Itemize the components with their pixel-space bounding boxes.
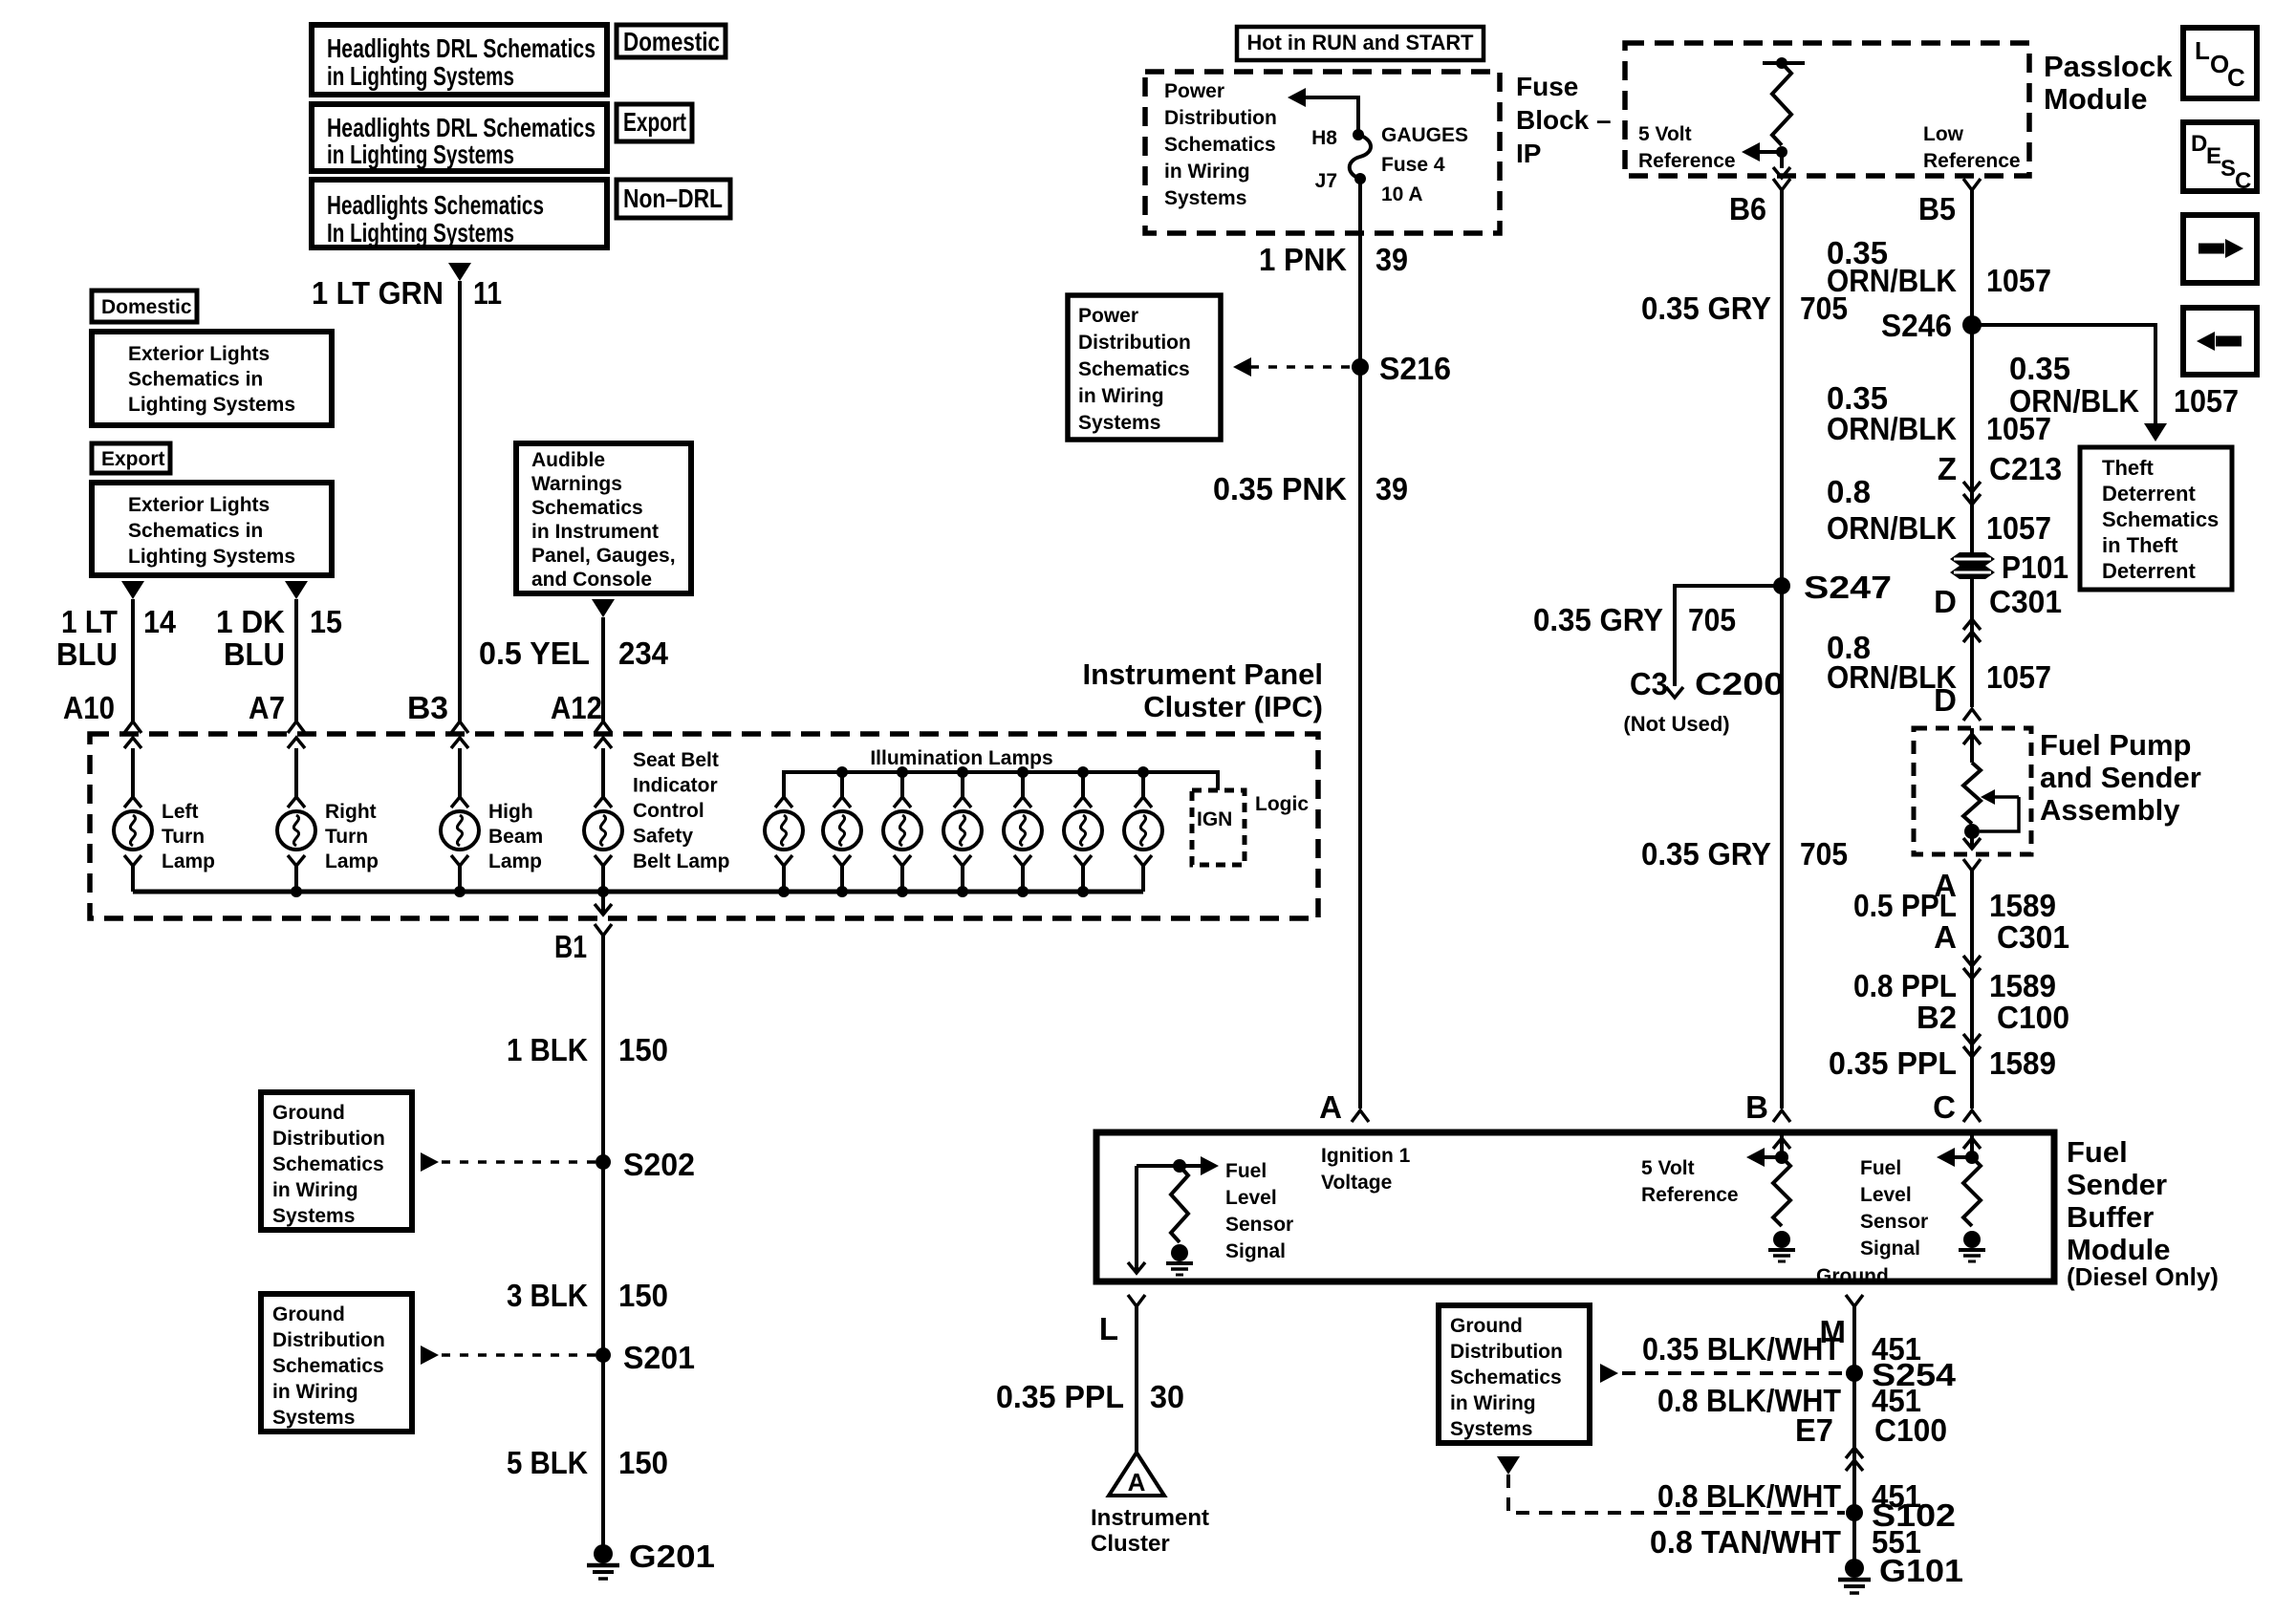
svg-text:5 Volt: 5 Volt — [1641, 1157, 1695, 1179]
branch wire to theft deterrent — [1972, 325, 2155, 424]
svg-text:Level: Level — [1860, 1184, 1912, 1206]
svg-text:D: D — [1934, 584, 1957, 619]
module internal: 5 volt reference pin B — [1780, 1132, 1784, 1157]
wire 0.5 PPL circuit 1589 — [1970, 871, 1974, 1109]
svg-text:IGN: IGN — [1197, 808, 1232, 830]
illumination lamp 3 — [900, 772, 904, 797]
arrow to exterior lights right — [285, 581, 308, 599]
svg-text:150: 150 — [618, 1278, 668, 1313]
passlock pin B5 — [1963, 179, 1981, 190]
svg-text:5 BLK: 5 BLK — [507, 1445, 588, 1480]
svg-text:Export: Export — [101, 448, 165, 470]
svg-text:Headlights DRL Schematics: Headlights DRL Schematics — [327, 33, 596, 63]
svg-text:C: C — [2227, 63, 2245, 92]
arrow from audible warnings box — [592, 599, 615, 617]
svg-text:Cluster: Cluster — [1091, 1531, 1170, 1557]
svg-text:D: D — [2191, 131, 2207, 157]
module pin L — [1128, 1295, 1145, 1306]
svg-text:Theft: Theft — [2102, 456, 2154, 480]
wire 1 PNK circuit 39 — [1358, 179, 1362, 367]
module pin M — [1846, 1295, 1863, 1306]
dashed link from ground distribution box to S102 — [1497, 1456, 1520, 1475]
svg-text:in Lighting Systems: in Lighting Systems — [327, 140, 514, 169]
svg-text:D: D — [1934, 682, 1957, 718]
svg-text:5 Volt: 5 Volt — [1638, 123, 1692, 145]
svg-text:S216: S216 — [1379, 351, 1451, 386]
fuel level sender potentiometer — [1970, 728, 1974, 763]
svg-text:A12: A12 — [551, 690, 602, 725]
svg-text:(Diesel Only): (Diesel Only) — [2067, 1262, 2219, 1291]
svg-text:Fuel: Fuel — [1860, 1157, 1901, 1179]
tag box Domestic (top) — [617, 25, 726, 57]
svg-text:Systems: Systems — [272, 1407, 355, 1429]
reference box: Exterior Lights Schematics (Domestic) — [92, 332, 332, 425]
svg-text:1057: 1057 — [1986, 411, 2051, 446]
svg-text:in Wiring: in Wiring — [1078, 385, 1164, 407]
svg-text:Systems: Systems — [1450, 1418, 1532, 1440]
svg-text:B2: B2 — [1917, 1000, 1957, 1035]
reference box: Headlights DRL Schematics in Lighting Systems (Export) — [312, 104, 607, 171]
svg-text:Schematics: Schematics — [2102, 507, 2219, 531]
IGN logic dashed box — [1192, 790, 1245, 865]
svg-text:B1: B1 — [554, 929, 587, 964]
svg-text:234: 234 — [618, 635, 669, 671]
svg-text:Sensor: Sensor — [1225, 1214, 1293, 1236]
svg-text:Lighting Systems: Lighting Systems — [128, 546, 295, 568]
svg-text:and Console: and Console — [531, 569, 652, 591]
svg-text:3 BLK: 3 BLK — [507, 1278, 588, 1313]
svg-text:BLU: BLU — [56, 636, 118, 672]
svg-text:Reference: Reference — [1641, 1184, 1739, 1206]
arrow to exterior lights left — [121, 581, 144, 599]
svg-text:Distribution: Distribution — [1078, 332, 1191, 354]
svg-text:Reference: Reference — [1638, 150, 1736, 172]
reference box: Power Distribution Schematics (S216) — [1068, 295, 1221, 440]
svg-text:705: 705 — [1688, 602, 1736, 637]
wire drop to left turn lamp — [131, 748, 135, 797]
svg-text:0.35 PPL: 0.35 PPL — [996, 1379, 1124, 1414]
svg-text:1057: 1057 — [1986, 263, 2051, 298]
svg-text:0.35 GRY: 0.35 GRY — [1533, 602, 1663, 637]
reference box: Exterior Lights Schematics (Export) — [92, 483, 332, 575]
wire 0.35 PPL circuit 30 — [1135, 1306, 1138, 1453]
svg-text:Domestic: Domestic — [101, 296, 192, 318]
wire drop to seat belt lamp — [601, 748, 605, 797]
svg-text:in Instrument: in Instrument — [531, 521, 659, 543]
svg-text:A: A — [1934, 919, 1957, 955]
svg-text:Passlock: Passlock — [2044, 50, 2173, 83]
illumination lamp 2 — [840, 772, 844, 797]
svg-text:Z: Z — [1938, 451, 1957, 486]
svg-text:39: 39 — [1375, 471, 1408, 506]
module internal: fuel level sensor signal pin C — [1970, 1132, 1974, 1157]
fuel pump pin A — [1963, 859, 1981, 871]
svg-text:L: L — [1099, 1311, 1118, 1346]
svg-text:A: A — [1128, 1468, 1146, 1497]
svg-text:Instrument Panel: Instrument Panel — [1083, 657, 1324, 691]
seat belt lamp symbol — [595, 797, 612, 807]
wire drop to high beam lamp — [458, 748, 462, 797]
ground G101 — [1845, 1559, 1864, 1578]
svg-text:L: L — [2195, 36, 2210, 65]
illumination lamp 7 — [1141, 772, 1145, 797]
svg-text:Signal: Signal — [1860, 1238, 1920, 1260]
svg-text:Schematics: Schematics — [1078, 358, 1190, 380]
svg-text:1589: 1589 — [1989, 968, 2056, 1003]
svg-text:0.35 BLK/WHT: 0.35 BLK/WHT — [1642, 1331, 1841, 1367]
svg-text:IP: IP — [1516, 139, 1541, 168]
high beam lamp symbol — [451, 797, 468, 807]
svg-text:Logic: Logic — [1255, 793, 1309, 815]
splice S202 — [421, 1152, 439, 1172]
svg-text:1589: 1589 — [1989, 1045, 2056, 1081]
svg-text:Turn: Turn — [325, 826, 368, 848]
wire drop to right turn lamp — [294, 748, 298, 797]
svg-text:0.8: 0.8 — [1827, 474, 1871, 509]
svg-text:0.35: 0.35 — [2009, 351, 2070, 386]
svg-text:Instrument: Instrument — [1091, 1505, 1209, 1531]
svg-text:Reference: Reference — [1923, 150, 2021, 172]
IPC pin chevrons A10 A7 B3 A12 — [124, 738, 141, 748]
wire 0.5 YEL circuit 234 (to IPC pin A12) — [601, 617, 605, 721]
svg-text:Distribution: Distribution — [272, 1329, 385, 1351]
svg-text:ORN/BLK: ORN/BLK — [1827, 510, 1957, 546]
wire 1 LT GRN circuit 11 (headlights to IPC pin B3) — [458, 281, 462, 721]
svg-text:1 BLK: 1 BLK — [507, 1032, 588, 1067]
svg-text:1057: 1057 — [2174, 383, 2239, 419]
svg-text:Systems: Systems — [1078, 412, 1160, 434]
module internal: fuel level sensor signal output L — [1137, 1164, 1201, 1168]
svg-text:0.35 GRY: 0.35 GRY — [1641, 291, 1771, 326]
svg-text:1 PNK: 1 PNK — [1259, 242, 1347, 277]
svg-text:Module: Module — [2044, 82, 2148, 116]
svg-text:Fuse 4: Fuse 4 — [1381, 154, 1445, 176]
svg-text:Export: Export — [623, 107, 686, 137]
svg-text:Distribution: Distribution — [272, 1128, 385, 1150]
svg-text:39: 39 — [1375, 242, 1408, 277]
svg-text:C: C — [2235, 168, 2251, 194]
svg-text:ORN/BLK: ORN/BLK — [1827, 411, 1957, 446]
svg-text:G101: G101 — [1879, 1553, 1963, 1588]
reference box: Theft Deterrent Schematics in Theft Deterrent — [2080, 447, 2232, 590]
svg-text:Schematics: Schematics — [1164, 134, 1276, 156]
svg-text:Warnings: Warnings — [531, 473, 622, 495]
svg-text:Signal: Signal — [1225, 1240, 1286, 1262]
svg-text:C200: C200 — [1695, 666, 1785, 701]
svg-text:C: C — [1933, 1089, 1956, 1125]
wire 0.35 GRY circuit 705 (passlock B6 to module pin B) — [1780, 190, 1784, 1109]
svg-text:Domestic: Domestic — [623, 27, 720, 56]
svg-text:Beam: Beam — [488, 826, 543, 848]
tag box: Hot in RUN and START — [1237, 27, 1484, 60]
passlock pin B6 — [1773, 179, 1790, 190]
illumination lamp 1 — [775, 797, 792, 807]
svg-text:14: 14 — [143, 604, 177, 639]
svg-text:705: 705 — [1800, 836, 1848, 872]
svg-text:Lamp: Lamp — [325, 851, 379, 872]
svg-text:Fuse: Fuse — [1516, 72, 1578, 101]
svg-text:1057: 1057 — [1986, 510, 2051, 546]
svg-text:in Wiring: in Wiring — [272, 1381, 358, 1403]
svg-text:Sender: Sender — [2067, 1168, 2167, 1201]
svg-text:Schematics: Schematics — [1450, 1367, 1562, 1389]
svg-text:Ground: Ground — [272, 1303, 345, 1325]
svg-text:150: 150 — [618, 1445, 668, 1480]
svg-text:B3: B3 — [407, 690, 448, 725]
svg-text:B6: B6 — [1729, 191, 1766, 226]
svg-text:0.8 PPL: 0.8 PPL — [1853, 968, 1957, 1003]
svg-text:Illumination Lamps: Illumination Lamps — [870, 747, 1052, 769]
module box: Fuse Block - IP (dashed) — [1145, 72, 1500, 233]
tag box Non-DRL — [617, 180, 730, 218]
reference box: Headlights DRL Schematics in Lighting Systems (Domestic) — [312, 25, 607, 95]
svg-text:0.8 TAN/WHT: 0.8 TAN/WHT — [1650, 1524, 1841, 1560]
svg-text:1 LT GRN: 1 LT GRN — [312, 275, 444, 311]
svg-text:C3: C3 — [1630, 666, 1668, 701]
svg-text:(Not Used): (Not Used) — [1623, 712, 1729, 736]
svg-text:15: 15 — [310, 604, 342, 639]
svg-text:C301: C301 — [1997, 919, 2069, 955]
svg-text:Assembly: Assembly — [2040, 793, 2180, 827]
corner box arrow left — [2183, 308, 2257, 375]
illumination lamps supply rail — [784, 772, 1218, 797]
svg-text:in Lighting Systems: in Lighting Systems — [327, 61, 514, 91]
svg-text:Distribution: Distribution — [1450, 1341, 1563, 1363]
svg-text:Ignition 1: Ignition 1 — [1321, 1145, 1411, 1167]
svg-text:S: S — [2220, 156, 2236, 182]
svg-text:J7: J7 — [1315, 170, 1337, 192]
svg-text:Schematics in: Schematics in — [128, 520, 263, 542]
right turn lamp symbol — [288, 797, 305, 807]
connector P101 — [1950, 552, 1995, 566]
fuse GAUGES Fuse 4 10A — [1353, 129, 1364, 140]
svg-text:1057: 1057 — [1986, 659, 2051, 695]
IPC internal ground bus — [133, 890, 1143, 894]
svg-text:Panel, Gauges,: Panel, Gauges, — [531, 545, 676, 567]
svg-text:0.5 YEL: 0.5 YEL — [479, 635, 590, 671]
svg-text:Schematics: Schematics — [531, 497, 643, 519]
wire 5 BLK circuit 150 — [601, 1355, 605, 1545]
svg-text:1589: 1589 — [1989, 888, 2056, 923]
svg-text:Module: Module — [2067, 1233, 2171, 1266]
svg-text:C100: C100 — [1874, 1412, 1947, 1448]
wire 0.35 BLK/WHT circuit 451 — [1852, 1306, 1856, 1568]
reference box: Ground Distribution Schematics (S202) — [261, 1092, 412, 1230]
svg-text:1 LT: 1 LT — [61, 604, 118, 639]
svg-text:C213: C213 — [1989, 451, 2062, 486]
svg-text:Exterior Lights: Exterior Lights — [128, 494, 270, 516]
svg-text:Hot in RUN and START: Hot in RUN and START — [1247, 31, 1475, 54]
svg-text:High: High — [488, 801, 533, 823]
svg-text:C301: C301 — [1989, 584, 2062, 619]
svg-text:Schematics in: Schematics in — [128, 369, 263, 391]
svg-text:A: A — [1319, 1089, 1342, 1125]
ground G201 — [594, 1544, 613, 1563]
svg-text:S201: S201 — [623, 1340, 695, 1375]
svg-text:GAUGES: GAUGES — [1381, 124, 1468, 146]
tag box Domestic (left) — [92, 291, 197, 322]
module box: Instrument Panel Cluster (IPC) — [90, 734, 1318, 918]
svg-text:S202: S202 — [623, 1147, 695, 1182]
splice S254 — [1600, 1364, 1618, 1383]
svg-text:Deterrent: Deterrent — [2102, 559, 2196, 583]
svg-text:0.5 PPL: 0.5 PPL — [1853, 888, 1957, 923]
svg-text:G201: G201 — [629, 1539, 715, 1574]
svg-text:Indicator: Indicator — [633, 775, 718, 797]
svg-text:0.8 BLK/WHT: 0.8 BLK/WHT — [1657, 1478, 1841, 1514]
svg-text:Ground: Ground — [1816, 1265, 1889, 1287]
svg-text:in Wiring: in Wiring — [1164, 161, 1250, 183]
svg-text:Non–DRL: Non–DRL — [623, 183, 723, 213]
splice S216 — [1233, 357, 1251, 377]
svg-text:Exterior Lights: Exterior Lights — [128, 343, 270, 365]
instrument cluster triangle A — [1109, 1453, 1164, 1496]
svg-text:Seat Belt: Seat Belt — [633, 749, 719, 771]
svg-text:Sensor: Sensor — [1860, 1211, 1928, 1233]
svg-text:0.35 PPL: 0.35 PPL — [1829, 1045, 1957, 1081]
splice S247 — [1773, 577, 1790, 594]
wire from fuse to power distribution (arrow) — [1306, 97, 1358, 135]
passlock internal resistor — [1763, 61, 1805, 65]
module box: Fuel Sender Buffer Module — [1096, 1132, 2054, 1281]
reference box: Ground Distribution Schematics (S201) — [261, 1294, 412, 1432]
svg-text:Turn: Turn — [162, 826, 205, 848]
svg-text:Cluster (IPC): Cluster (IPC) — [1143, 690, 1323, 723]
svg-text:Control: Control — [633, 800, 704, 822]
wire into fuel pump assembly — [1970, 577, 1974, 707]
splice S246 — [1962, 315, 1982, 334]
svg-text:Power: Power — [1078, 305, 1138, 327]
svg-text:E7: E7 — [1795, 1412, 1833, 1448]
svg-text:Belt Lamp: Belt Lamp — [633, 851, 730, 872]
svg-text:Fuel: Fuel — [2067, 1135, 2128, 1169]
svg-text:Voltage: Voltage — [1321, 1172, 1392, 1194]
illumination lamp 4 — [961, 772, 964, 797]
tag box Export (top) — [617, 104, 692, 141]
svg-text:In Lighting Systems: In Lighting Systems — [327, 218, 514, 248]
svg-text:in Theft: in Theft — [2102, 533, 2178, 557]
splice S201 — [421, 1346, 439, 1365]
svg-text:Power: Power — [1164, 80, 1224, 102]
svg-text:Ground: Ground — [272, 1102, 345, 1124]
svg-text:Schematics: Schematics — [272, 1153, 384, 1175]
wire 1 DK BLU circuit 15 (to IPC pin A7) — [294, 599, 298, 721]
module box: Passlock Module (dashed) — [1625, 43, 2029, 176]
wire 1 LT BLU circuit 14 (to IPC pin A10) — [131, 599, 135, 721]
wire 0.35 PNK circuit 39 (ignition 1 voltage to IPC... module pin A) — [1358, 367, 1362, 1109]
svg-text:150: 150 — [618, 1032, 668, 1067]
reference box: Audible Warnings Schematics — [516, 443, 691, 593]
svg-text:Distribution: Distribution — [1164, 107, 1277, 129]
reference box: Headlights Schematics In Lighting Systems (Non-DRL) — [312, 180, 607, 248]
wire 0.35 ORN/BLK circuit 1057 (passlock B5) — [1970, 190, 1974, 556]
svg-text:Lamp: Lamp — [488, 851, 542, 872]
corner box DESC — [2183, 122, 2257, 191]
svg-text:ORN/BLK: ORN/BLK — [1827, 263, 1957, 298]
svg-text:11: 11 — [473, 275, 502, 311]
svg-text:10 A: 10 A — [1381, 183, 1423, 205]
illumination lamp 5 — [1021, 772, 1025, 797]
svg-text:0.35 GRY: 0.35 GRY — [1641, 836, 1771, 872]
svg-text:30: 30 — [1150, 1379, 1184, 1414]
corner box LOC — [2183, 28, 2257, 98]
arrow from headlights schematics into wire — [448, 263, 471, 281]
svg-text:BLU: BLU — [224, 636, 285, 672]
svg-text:Low: Low — [1923, 123, 1964, 145]
svg-text:E: E — [2206, 143, 2221, 169]
svg-text:Safety: Safety — [633, 826, 693, 848]
svg-text:Audible: Audible — [531, 449, 605, 471]
IPC pin B1 exit — [601, 892, 605, 915]
svg-text:P101: P101 — [2002, 549, 2069, 585]
module box: Fuel Pump and Sender Assembly (dashed) — [1914, 728, 2031, 854]
svg-text:B5: B5 — [1918, 191, 1956, 226]
svg-text:C100: C100 — [1997, 1000, 2069, 1035]
svg-text:Headlights DRL Schematics: Headlights DRL Schematics — [327, 113, 596, 142]
svg-text:Deterrent: Deterrent — [2102, 482, 2196, 506]
corner box arrow right — [2183, 215, 2257, 283]
illumination lamp 6 — [1081, 772, 1085, 797]
svg-text:Fuel: Fuel — [1225, 1160, 1267, 1182]
svg-text:H8: H8 — [1311, 127, 1337, 149]
svg-text:Systems: Systems — [1164, 187, 1246, 209]
left turn lamp symbol — [124, 797, 141, 807]
svg-text:Lamp: Lamp — [162, 851, 215, 872]
svg-text:S247: S247 — [1804, 570, 1892, 605]
wire 3 BLK circuit 150 — [601, 1162, 605, 1355]
svg-text:1 DK: 1 DK — [216, 604, 285, 639]
svg-text:Level: Level — [1225, 1187, 1277, 1209]
svg-text:and Sender: and Sender — [2040, 761, 2201, 794]
svg-text:Block –: Block – — [1516, 105, 1612, 135]
tag box Export (left) — [92, 443, 170, 473]
svg-text:0.35 PNK: 0.35 PNK — [1213, 471, 1347, 506]
reference box: Ground Distribution Schematics (S254 S102) — [1439, 1305, 1590, 1443]
svg-text:Lighting Systems: Lighting Systems — [128, 394, 295, 416]
svg-text:S246: S246 — [1881, 308, 1952, 343]
svg-text:B: B — [1745, 1089, 1768, 1125]
svg-text:in Wiring: in Wiring — [1450, 1392, 1536, 1414]
svg-text:in Wiring: in Wiring — [272, 1179, 358, 1201]
svg-text:Right: Right — [325, 801, 377, 823]
svg-text:Left: Left — [162, 801, 199, 823]
svg-text:Schematics: Schematics — [272, 1355, 384, 1377]
svg-text:A10: A10 — [63, 690, 115, 725]
svg-text:Buffer: Buffer — [2067, 1200, 2154, 1234]
wire 1 BLK circuit 150 — [601, 936, 605, 1162]
svg-text:A7: A7 — [249, 690, 285, 725]
svg-text:Systems: Systems — [272, 1205, 355, 1227]
svg-text:Fuel Pump: Fuel Pump — [2040, 728, 2191, 762]
svg-text:Headlights Schematics: Headlights Schematics — [327, 190, 544, 220]
svg-text:Ground: Ground — [1450, 1315, 1523, 1337]
